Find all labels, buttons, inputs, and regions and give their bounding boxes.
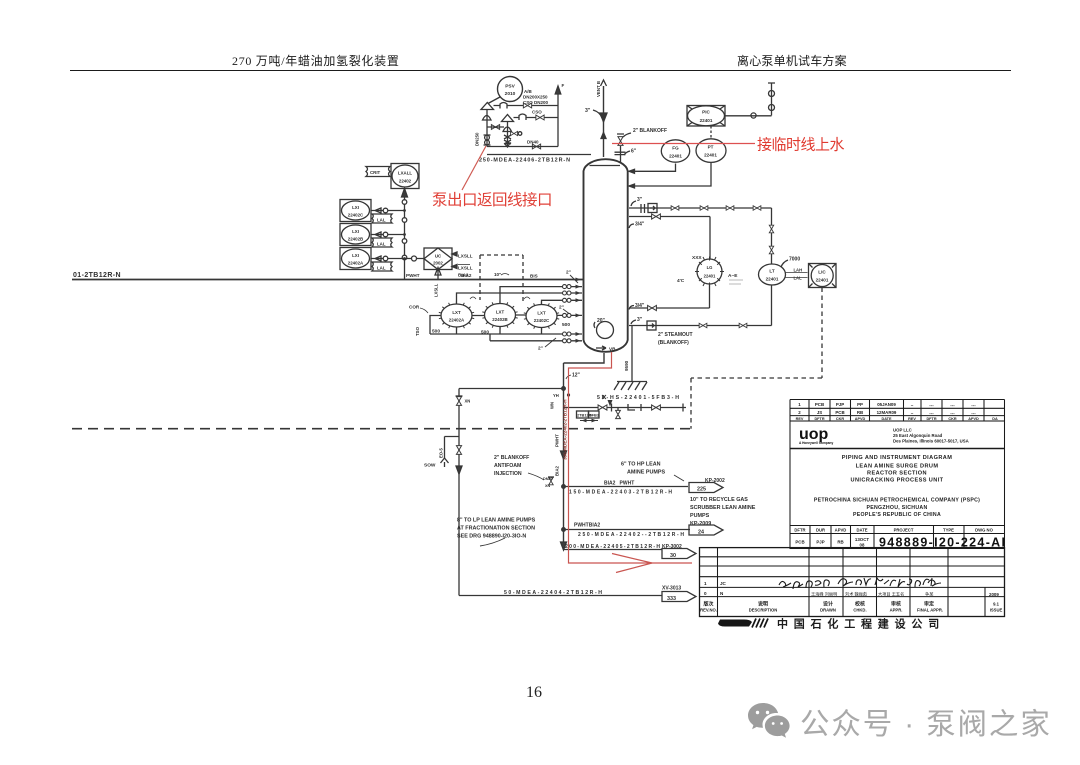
separator under uop: [790, 448, 1005, 450]
PWHT label: [406, 272, 538, 279]
svg-text:REACTOR SECTION: REACTOR SECTION: [867, 471, 927, 477]
battery limit dashed line: [72, 428, 691, 430]
lower table rows: [700, 557, 1005, 597]
svg-text:JC: JC: [720, 581, 727, 586]
svg-text:PIPING AND INSTRUMENT DIAGR: PIPING AND INSTRUMENT DIAGRAM: [842, 455, 953, 461]
svg-text:22402: 22402: [399, 179, 412, 184]
vessel lean amine surge drum: [584, 159, 628, 352]
relief valve triangle 1: [481, 103, 494, 110]
controller UC diamond: [424, 248, 452, 270]
spec break box: [648, 204, 657, 213]
valve XN on west riser: [456, 397, 461, 406]
svg-text:20": 20": [597, 318, 606, 324]
project strip values: [795, 537, 869, 548]
svg-text:LAL: LAL: [377, 218, 386, 223]
svg-text:LAL: LAL: [794, 276, 803, 281]
LXSLL rotated: [434, 283, 439, 297]
vessel nozzle union fittings upper: [563, 285, 572, 343]
svg-text:DN250: DN250: [475, 132, 480, 146]
svg-text:LAH: LAH: [794, 268, 803, 273]
LXSLL signal labels: [458, 254, 473, 278]
svg-text:ISSUE: ISSUE: [990, 608, 1003, 613]
svg-text:2": 2": [566, 270, 571, 276]
DN40 label: [527, 140, 539, 145]
svg-text:(BLANKOFF): (BLANKOFF): [658, 340, 689, 346]
svg-text:LXSLL: LXSLL: [458, 266, 473, 271]
svg-text:LXT: LXT: [537, 311, 546, 316]
valve marks on top side pipe: [671, 206, 679, 210]
6 inch label: [631, 149, 637, 155]
hose hook: [628, 404, 641, 411]
svg-text:FINAL APPR.: FINAL APPR.: [917, 608, 943, 613]
pipe to vessel top: [487, 154, 591, 156]
line label 150-MDEA-22403-2TB12R-N: [569, 481, 672, 496]
svg-text:6": 6": [631, 149, 637, 155]
flow arrow into steam line: [608, 400, 613, 407]
svg-text:争某: 争某: [925, 591, 934, 598]
svg-text:3": 3": [637, 197, 643, 203]
KP-2009 arrow flag: [689, 525, 723, 535]
svg-text:PJP: PJP: [836, 402, 844, 407]
svg-text:22401: 22401: [766, 277, 779, 282]
manway 20in label: [597, 318, 606, 324]
line to LP lean amine pumps: [564, 549, 663, 551]
svg-text:LEAN AMINE SURGE DRUM: LEAN AMINE SURGE DRUM: [856, 464, 939, 470]
drain to grade: [631, 326, 633, 382]
svg-text:2010: 2010: [505, 91, 516, 97]
svg-text:LXI: LXI: [352, 205, 359, 210]
header rule: [70, 70, 1011, 72]
svg-text:CSO: CSO: [532, 110, 542, 115]
vessel top nozzle: [590, 152, 626, 165]
svg-text:PETROCHINA SICHUAN PETROCHEM: PETROCHINA SICHUAN PETROCHEMICAL COMPANY…: [814, 498, 980, 504]
svg-text:CHKD.: CHKD.: [853, 608, 866, 613]
svg-text:24: 24: [698, 530, 704, 536]
svg-text:DUR: DUR: [816, 528, 825, 533]
svg-text:F: F: [562, 83, 565, 88]
vent line to vessel: [603, 86, 605, 157]
svg-text:~: ~: [911, 411, 914, 416]
DN250 label rotated: [475, 132, 480, 146]
svg-text:LXI: LXI: [352, 253, 359, 258]
svg-text:A~E: A~E: [728, 273, 738, 279]
svg-text:500: 500: [432, 329, 440, 335]
svg-text:12": 12": [572, 373, 581, 379]
svg-text:XN: XN: [545, 484, 551, 488]
8in TO LP LEAN AMINE PUMPS text: [457, 518, 536, 540]
svg-text:1: 1: [798, 402, 801, 407]
COR label: [409, 305, 420, 310]
line label 50-MDEA-22404-2TB12R-N: [504, 590, 602, 596]
displacer transmitter LXT 22402B: [485, 304, 516, 327]
12 inch label: [572, 373, 581, 379]
svg-text:AT FRACTIONATION SECTION: AT FRACTIONATION SECTION: [457, 526, 535, 532]
svg-text:INJECTION: INJECTION: [494, 471, 522, 477]
svg-text:---: ---: [950, 411, 955, 416]
PSV size label A/B DN200X250 CSO DN200: [523, 89, 549, 105]
west riser: [458, 389, 460, 596]
svg-text:A Honeywell Company: A Honeywell Company: [799, 441, 833, 445]
svg-text:1: 1: [704, 581, 707, 586]
signal PIC to sample point: [725, 115, 772, 117]
SEI company logo block: [718, 620, 752, 627]
svg-text:说明: 说明: [758, 601, 768, 608]
red annotation pump return nozzle leader: [462, 146, 486, 190]
indicator LXI 22402A: [340, 248, 371, 270]
svg-text:REV.NO.: REV.NO.: [700, 608, 717, 613]
7000 note: [789, 257, 800, 263]
valve between standpipes: [491, 125, 499, 130]
6in TO HP LEAN AMINE PUMPS: [621, 462, 665, 476]
svg-text:3/4": 3/4": [635, 222, 645, 228]
svg-text:DESCRIPTION: DESCRIPTION: [749, 608, 778, 613]
svg-text:PWHT: PWHT: [555, 434, 560, 447]
main process line from unit 01: [72, 279, 583, 281]
approver name row tiny chinese: [811, 591, 934, 598]
flow arrow west riser: [456, 466, 462, 474]
svg-text:UOP LLC: UOP LLC: [893, 428, 912, 433]
spec break tags 2TB12R 5FB3: [577, 411, 589, 418]
instrument PT 22401: [696, 139, 726, 163]
vertical pipe DN250: [486, 110, 488, 147]
svg-text:LAL: LAL: [377, 242, 386, 247]
revision table grid: [790, 400, 1005, 416]
svg-text:7000: 7000: [789, 257, 800, 263]
svg-text:RB: RB: [857, 410, 863, 415]
svg-text:22401: 22401: [700, 118, 713, 123]
displacer transmitter LXT 22402C: [526, 305, 557, 328]
vessel bottom outlet: [564, 353, 605, 549]
globe valve side: [510, 131, 517, 135]
vessel nozzle arrows at wall: [576, 278, 581, 343]
lower signature table border: [700, 548, 1005, 617]
svg-text:LXSLL: LXSLL: [434, 283, 439, 297]
svg-text:200-MDEA-22405-2TB12R-H: 200-MDEA-22405-2TB12R-H: [565, 544, 660, 550]
svg-text:UC: UC: [435, 254, 442, 259]
2 inch labels: [538, 270, 571, 352]
svg-text:版次: 版次: [703, 601, 713, 608]
svg-text:WN: WN: [550, 402, 555, 409]
level transmitter LT 22401: [759, 264, 786, 285]
svg-text:PWHTBIA2: PWHTBIA2: [574, 523, 600, 529]
svg-text:N: N: [720, 591, 724, 596]
ground symbol: [617, 381, 647, 383]
lower table columns: [718, 548, 986, 617]
signal riser to LXALL: [404, 192, 406, 280]
svg-text:2" STEAMOUT: 2" STEAMOUT: [658, 332, 693, 338]
svg-text:~: ~: [911, 403, 914, 408]
alarm tag LAL: [372, 214, 392, 223]
gauge tapping 3/4: [629, 217, 710, 260]
svg-text:COR: COR: [409, 305, 420, 310]
svg-text:25 East Algonquin Road: 25 East Algonquin Road: [893, 433, 943, 438]
CRIT banner: [366, 167, 390, 177]
valve on PSV outlet: [500, 103, 507, 109]
svg-text:2" BLANKOFF: 2" BLANKOFF: [633, 128, 667, 134]
svg-text:08: 08: [860, 543, 865, 548]
svg-text:PP: PP: [857, 402, 863, 407]
line label 250-MDEA-22406-2TB12R-N: [479, 158, 570, 164]
svg-text:大项目 王五名: 大项目 王五名: [878, 591, 904, 598]
svg-text:DN40: DN40: [527, 140, 539, 145]
PSV 2010 tag text: [505, 84, 516, 98]
svg-text:3": 3": [637, 317, 643, 323]
svg-text:王海峰 刘丽明: 王海峰 刘丽明: [811, 591, 837, 598]
svg-text:审核: 审核: [891, 601, 901, 608]
project strip grid: [790, 526, 1005, 534]
CSO label: [532, 110, 542, 115]
svg-text:LXI: LXI: [352, 229, 359, 234]
svg-text:13OCT: 13OCT: [855, 537, 869, 542]
svg-text:BIA2 PWHT: BIA2 PWHT: [604, 481, 634, 487]
valve on west riser 2: [456, 446, 461, 455]
valves on steam hose line: [598, 405, 607, 410]
header left title: [232, 52, 552, 69]
svg-text:10": 10": [494, 272, 501, 277]
svg-text:PCB: PCB: [795, 540, 804, 545]
9590 elevation label rotated: [624, 360, 629, 371]
spec break arrows: [580, 420, 598, 422]
riser to LT: [771, 208, 773, 264]
svg-text:PUMPS: PUMPS: [690, 513, 710, 519]
line label 200-MDEA-22405: [565, 544, 660, 550]
svg-text:22402B: 22402B: [348, 237, 363, 242]
steam hose line 50-HS: [564, 407, 687, 409]
svg-text:9.1: 9.1: [993, 602, 999, 607]
svg-text:SCRUBBER LEAN AMINE: SCRUBBER LEAN AMINE: [690, 505, 756, 511]
spectacle blind stack left: [485, 135, 490, 140]
wire to LXI C: [371, 208, 405, 213]
handwritten approval signature: [779, 578, 941, 589]
antifoam injection label: [494, 455, 529, 477]
PT tapping line: [629, 163, 711, 187]
svg-text:SEE DRG 948890-I20-3IO-N: SEE DRG 948890-I20-3IO-N: [457, 534, 526, 540]
svg-text:DFTR: DFTR: [794, 528, 805, 533]
svg-text:XV-3013: XV-3013: [662, 586, 681, 592]
svg-text:22402B: 22402B: [492, 317, 507, 322]
manway 20in circle: [597, 322, 614, 339]
vent header riser with F flag: [557, 88, 559, 147]
svg-text:VENT B: VENT B: [596, 81, 601, 97]
svg-text:LXSLL: LXSLL: [458, 254, 473, 259]
svg-text:TYPE: TYPE: [943, 528, 954, 533]
displacer transmitter LXT 22402A: [441, 304, 472, 327]
svg-text:333: 333: [667, 596, 676, 602]
svg-text:PJP: PJP: [816, 540, 824, 545]
svg-text:500: 500: [481, 330, 489, 336]
500 labels: [432, 322, 570, 336]
LG notes A~E: [677, 255, 738, 284]
relief actuator dome 2: [503, 127, 512, 132]
svg-text:10" TO RECYCLE GAS: 10" TO RECYCLE GAS: [690, 497, 748, 503]
drawing title text: [842, 455, 953, 484]
svg-text:2009: 2009: [989, 592, 999, 597]
UOP logo: [799, 426, 833, 445]
svg-text:22401: 22401: [704, 274, 716, 279]
svg-text:250-MDEA-22406-2TB12R-N: 250-MDEA-22406-2TB12R-N: [479, 158, 570, 164]
line label 01-2TB12R-N: [73, 272, 121, 279]
svg-text:PCB: PCB: [835, 410, 844, 415]
rev no description header: [703, 601, 768, 608]
svg-text:校核: 校核: [855, 601, 865, 608]
red arrowhead on temporary line: [612, 554, 652, 573]
svg-text:22401: 22401: [704, 153, 717, 158]
level gauge LG 22401: [697, 259, 722, 284]
svg-text:150-MDEA-22403-2TB12R-H: 150-MDEA-22403-2TB12R-H: [569, 490, 672, 496]
wire to LXI B: [371, 232, 405, 237]
svg-text:22401: 22401: [669, 154, 682, 159]
indicator LXI 22402B: [340, 224, 371, 246]
alarm LXALL 22402: [391, 164, 419, 189]
2in steamout blankoff label: [658, 332, 693, 346]
VB bottom label: [596, 346, 606, 350]
FG tapping line: [629, 164, 676, 172]
svg-text:LAL: LAL: [377, 266, 386, 271]
indicator LXI 22402C: [340, 200, 371, 222]
svg-text:2" BLANKOFF: 2" BLANKOFF: [494, 455, 529, 461]
red annotation temporary water line: [612, 143, 755, 145]
svg-text:0: 0: [704, 591, 707, 596]
UOP address: [893, 428, 969, 444]
svg-text:6" TO HP LEAN: 6" TO HP LEAN: [621, 462, 661, 468]
svg-text:CRIT: CRIT: [370, 170, 381, 175]
svg-text:KP-2009: KP-2009: [690, 521, 711, 527]
wire main line to UC: [405, 258, 425, 260]
svg-text:2": 2": [538, 346, 543, 352]
line to recycle gas scrubber: [564, 529, 691, 531]
svg-text:泵出口返回线接口: 泵出口返回线接口: [432, 191, 552, 209]
sample riser: [768, 83, 775, 116]
KP-3002 arrow flag: [662, 544, 682, 550]
pipe vessel top side connection: [629, 207, 772, 209]
wire to LXI A: [371, 256, 405, 261]
title block main border: [790, 421, 1005, 549]
svg-text:300-MDEA-22402-2TB12R-H: 300-MDEA-22402-2TB12R-H: [563, 399, 568, 460]
KP-2002 arrow flag: [705, 478, 725, 484]
svg-text:8" TO LP LEAN AMINE PUMPS: 8" TO LP LEAN AMINE PUMPS: [457, 518, 536, 524]
svg-text:BIA2: BIA2: [461, 273, 472, 278]
wire bottom header: [487, 146, 558, 148]
LAH LAL labels: [794, 268, 803, 281]
wire second relief to header: [514, 117, 559, 119]
PSV 2010 relief valve circle: [498, 77, 523, 102]
svg-text:LXT: LXT: [496, 310, 505, 315]
svg-text:XXX: XXX: [692, 255, 702, 261]
svg-text:---: ---: [971, 411, 976, 416]
flow arrows on outlet riser: [561, 451, 567, 550]
svg-text:DATE: DATE: [856, 528, 867, 533]
vent flag: [601, 80, 607, 86]
steamout line: [629, 285, 772, 326]
valve on second relief: [519, 114, 526, 120]
svg-text:DWG NO: DWG NO: [975, 528, 993, 533]
piping LXT cluster to vessel: [457, 287, 583, 316]
header right title: [737, 52, 847, 69]
BIA2 rotated on riser: [555, 465, 560, 476]
red line rotated label 300-MDEA-22402-2TB12R-N: [563, 399, 568, 460]
svg-text:250-MDEA-22402--2TB12R-H: 250-MDEA-22402--2TB12R-H: [578, 532, 684, 538]
drain line 50-MDEA-22404: [459, 595, 662, 597]
svg-text:500: 500: [562, 322, 570, 328]
drain valve below line: [617, 408, 619, 411]
svg-text:225: 225: [697, 487, 706, 493]
alarm tag LAL: [372, 238, 392, 247]
svg-text:PIC: PIC: [702, 110, 710, 115]
signal dashed across: [691, 377, 822, 379]
SOW branch: [445, 437, 460, 459]
svg-text:审定: 审定: [924, 601, 934, 608]
svg-text:中国石化工程建设公司: 中国石化工程建设公司: [777, 617, 945, 631]
svg-text:2: 2: [798, 410, 801, 415]
svg-text:FG: FG: [672, 146, 679, 151]
svg-text:22401: 22401: [816, 278, 829, 283]
svg-text:PSV: PSV: [505, 84, 515, 90]
svg-text:刘术 魏振彪: 刘术 魏振彪: [845, 591, 868, 598]
svg-text:SOW: SOW: [424, 463, 436, 469]
svg-text:AMINE PUMPS: AMINE PUMPS: [627, 470, 665, 476]
3 inch label vent: [585, 108, 591, 114]
svg-text:BIS: BIS: [530, 274, 538, 279]
rev rows 1 JC / 0 N: [704, 581, 727, 596]
revision table row 1: [798, 402, 976, 408]
revision table header row: [796, 417, 998, 421]
SEI company name chinese: [777, 617, 945, 631]
svg-text:22402A: 22402A: [449, 318, 465, 323]
svg-text:05JAN09: 05JAN09: [877, 402, 896, 407]
3 inch label: [637, 197, 643, 203]
svg-text:30: 30: [670, 553, 676, 559]
svg-text:PWHT: PWHT: [406, 273, 420, 278]
vent arrowhead: [600, 113, 607, 122]
second relief standpipe: [507, 122, 509, 147]
junction dots: [562, 387, 566, 391]
drawing number 948889-I20-224-AI: [879, 536, 1005, 550]
svg-text:APVD: APVD: [835, 528, 847, 533]
header to west: [459, 388, 564, 390]
LG bottom tapping: [629, 284, 710, 308]
svg-text:DN80: DN80: [543, 477, 553, 481]
svg-text:LXALL: LXALL: [398, 171, 412, 176]
10in TO RECYCLE GAS text: [690, 497, 756, 527]
controller PIC 22401: [687, 106, 725, 127]
label 50-HS-22401-5FB3-N: [597, 395, 679, 401]
svg-text:RB: RB: [837, 540, 843, 545]
SOW label and strainer: [424, 463, 436, 469]
svg-text:LIC: LIC: [818, 270, 826, 275]
XV-3013 arrow flag: [662, 586, 681, 592]
svg-text:12MAR09: 12MAR09: [877, 410, 897, 415]
piping bottom headers: [430, 316, 582, 341]
role header row: [823, 601, 934, 608]
dashed signal from LXT B: [480, 255, 523, 302]
PWHT rotated on riser: [555, 434, 560, 447]
signal dashed LIC down: [821, 288, 823, 379]
svg-text:---: ---: [929, 403, 934, 408]
instrument FG 22401: [661, 140, 689, 162]
svg-text:01-2TB12R-N: 01-2TB12R-N: [73, 272, 121, 279]
svg-text:22402C: 22402C: [534, 318, 550, 323]
svg-text:Des Plaines, Illinois 60017-50: Des Plaines, Illinois 60017-5017, USA: [893, 439, 969, 444]
svg-text:9590: 9590: [624, 360, 629, 371]
page number: [526, 684, 542, 702]
svg-text:DN200X250: DN200X250: [523, 95, 548, 100]
svg-text:2002: 2002: [433, 261, 443, 266]
svg-text:---: ---: [929, 411, 934, 416]
svg-text:---: ---: [971, 403, 976, 408]
svg-text:3": 3": [585, 108, 591, 114]
svg-text:PCB: PCB: [815, 402, 824, 407]
revision table row 2: [798, 410, 976, 416]
